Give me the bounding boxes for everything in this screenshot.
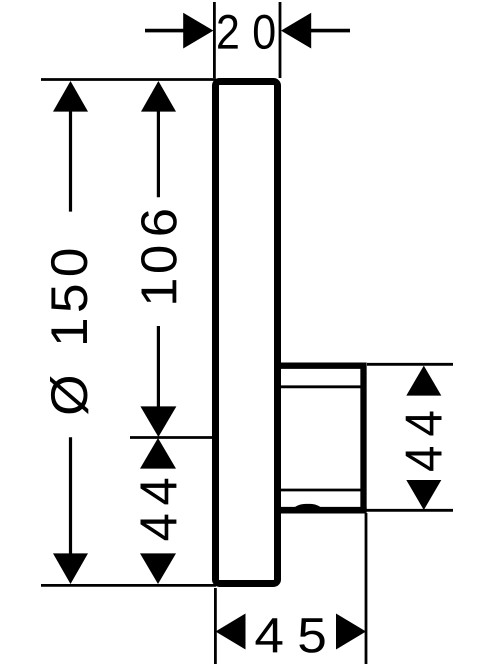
wall plate outline bbox=[216, 82, 278, 584]
dimension 20 right tail bbox=[311, 29, 350, 33]
label 45 bbox=[256, 618, 283, 652]
label 44 left bbox=[140, 515, 176, 541]
dimension line D150 lower segment bbox=[69, 437, 72, 558]
arrow 20 left bbox=[183, 13, 213, 49]
dimension line 106 lower segment bbox=[157, 326, 160, 409]
extension line 45 left bbox=[214, 588, 217, 664]
label 44 right bbox=[406, 447, 442, 471]
dimension line 106 upper segment bbox=[157, 108, 160, 197]
extension line top left horizontal bbox=[41, 78, 216, 81]
extension line 20 left bbox=[213, 2, 216, 78]
label 106 bbox=[142, 280, 177, 303]
tick line 106-44 boundary bbox=[130, 436, 215, 439]
extension line bottom left horizontal bbox=[41, 584, 216, 587]
body inner bottom line bbox=[281, 489, 361, 492]
dimension 20 left tail bbox=[145, 29, 184, 33]
extension line 44 right bottom bbox=[366, 509, 453, 512]
arrow D150 down bbox=[53, 553, 88, 584]
concealed body bottom edge with bump bbox=[279, 507, 367, 514]
arrow 20 right bbox=[281, 13, 311, 49]
arrow 45 left bbox=[216, 614, 246, 650]
extension line 45 right bbox=[365, 513, 368, 664]
arrow D150 up bbox=[53, 81, 88, 112]
label 20 bbox=[218, 15, 238, 49]
dimension line D150 upper segment bbox=[69, 108, 72, 212]
body inner top line bbox=[281, 385, 361, 388]
arrow 106 up bbox=[141, 81, 176, 112]
extension line 20 right bbox=[279, 2, 282, 78]
arrow 44 right down bbox=[406, 480, 441, 510]
arrow 44 left down bbox=[140, 553, 176, 584]
arrow 44 left up bbox=[140, 438, 176, 469]
bump on body bottom edge bbox=[293, 504, 323, 510]
concealed body top edge bbox=[277, 366, 364, 511]
arrow 106 down bbox=[140, 406, 176, 437]
arrow 45 right bbox=[336, 614, 366, 650]
extension line 44 right top bbox=[367, 363, 453, 366]
label D150 bbox=[50, 376, 88, 414]
arrow 44 right up bbox=[406, 366, 441, 396]
